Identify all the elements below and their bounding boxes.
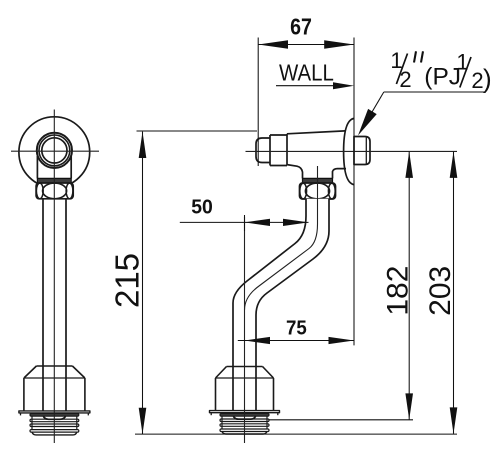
- side view: thread bottom: [222, 432, 267, 435]
- front view: thread crest 1: [30, 414, 79, 417]
- side view: spout horizontal centerline: [246, 150, 458, 152]
- front view: thread root right edge: [76, 416, 78, 430]
- front view: boss ring outer circle: [37, 133, 72, 168]
- dim 182: top arrow: [405, 152, 413, 178]
- side view: wall flange: [344, 118, 354, 184]
- svg-text:215: 215: [108, 253, 145, 308]
- dim 203: top arrow: [450, 152, 458, 178]
- front view: bore inner circle: [42, 138, 67, 163]
- dim 67: right arrow: [324, 40, 354, 48]
- side view: base cylinder left: [215, 378, 217, 411]
- side view: base shoulder top: [227, 366, 263, 368]
- side view: thread crest 2: [220, 419, 269, 422]
- side view: body bottom left edge with fillet: [287, 165, 303, 179]
- front view: nut left facet: [36, 183, 43, 199]
- front view: thread crest 2: [30, 419, 79, 422]
- front view: base shoulder line: [24, 377, 85, 379]
- WALL arrowhead: [333, 82, 354, 89]
- side view: S-pipe left edge: [233, 199, 306, 367]
- front view: washer dark band: [37, 178, 71, 183]
- front view: base flange: [19, 411, 90, 413]
- side view: lower pipe axis line: [244, 217, 246, 443]
- fraction slash 1: [396, 54, 407, 85]
- dim 67: wall line (right extension): [353, 38, 355, 346]
- front view: thread root left edge: [31, 416, 33, 430]
- front view: thread bottom: [32, 432, 77, 435]
- leader underline for thread label: [384, 91, 486, 93]
- dim 203: dimension line: [453, 152, 455, 434]
- front view: horizontal centerline: [11, 150, 99, 152]
- side view: wall nipple: [354, 137, 370, 165]
- svg-text:182: 182: [381, 266, 414, 316]
- front view: thread crest 3: [30, 424, 79, 427]
- front view: flange left tick: [20, 413, 22, 416]
- front view: base shoulder top: [36, 365, 72, 367]
- side view: thread root right edge: [266, 416, 268, 429]
- dim 50: left arrow: [245, 219, 271, 226]
- side view: step top edge: [270, 134, 287, 136]
- side view: S-pipe fill: [233, 199, 329, 367]
- front view: nut center facet ellipse: [43, 183, 67, 199]
- svg-text:2: 2: [471, 68, 483, 93]
- front view: nut right facet: [66, 183, 73, 199]
- dim 215: bottom arrow: [139, 408, 147, 434]
- dim 67: left arrow: [258, 40, 288, 48]
- dim 75: dimension line: [238, 340, 354, 342]
- front view: straight supply pipe: [43, 199, 66, 419]
- side view: base left slope: [216, 367, 227, 379]
- svg-text:2: 2: [399, 67, 411, 92]
- side view: step bottom edge: [270, 165, 287, 167]
- svg-text:203: 203: [424, 266, 457, 316]
- dim 75: right arrow: [329, 337, 355, 344]
- dim 50: right arrow: [283, 219, 309, 226]
- side view: nut left facet: [300, 183, 307, 199]
- front view: flange right tick: [87, 413, 89, 416]
- svg-text:75: 75: [286, 317, 307, 340]
- side view: thread root left edge: [221, 416, 223, 429]
- front view: base right slope: [72, 366, 85, 378]
- side view: flange left tick: [210, 413, 212, 416]
- svg-text:WALL: WALL: [279, 59, 334, 85]
- leader arrowhead: [358, 109, 377, 136]
- side view: base cylinder right: [273, 378, 275, 411]
- side view: branch and pipe centerline: [245, 166, 318, 310]
- side view: valve body fill: [256, 131, 346, 179]
- front view: boss ring middle circle: [39, 135, 70, 166]
- dim 75: left arrow: [245, 337, 271, 344]
- front view: neck right edge: [70, 156, 72, 178]
- side view: washer dark band: [303, 178, 333, 183]
- front view: base left slope: [24, 366, 37, 378]
- dim 182: dimension line: [408, 152, 410, 420]
- side view: nut center facet ellipse: [305, 183, 329, 199]
- side view: nipple chamfer line: [365, 137, 367, 164]
- dim 67: dimension line: [258, 44, 354, 46]
- side view: base right slope: [263, 367, 274, 379]
- side view: flange right tick: [277, 413, 279, 416]
- side view: thread crest 1: [220, 414, 269, 417]
- dim 67: left extension line: [257, 38, 259, 167]
- side view: pipe into base: [233, 367, 256, 420]
- side view: body bottom right edge with fillet: [333, 169, 347, 179]
- front view: base cylinder right: [84, 378, 86, 411]
- side view: body top edge: [287, 131, 345, 134]
- WALL arrow line: [276, 85, 348, 87]
- svg-text:50: 50: [191, 196, 213, 219]
- side view: base flange: [210, 411, 280, 413]
- side view: base shoulder line: [216, 377, 274, 379]
- svg-text:): ): [483, 64, 492, 94]
- front view: hex nut body: [36, 183, 73, 199]
- dim 203: bottom arrow: [450, 407, 458, 433]
- inch double prime: [414, 51, 423, 62]
- leader diagonal line: [362, 92, 384, 129]
- front view: vertical centerline: [53, 110, 55, 444]
- dim 182: bottom extension line: [269, 419, 413, 421]
- side view: S-pipe right edge: [256, 199, 329, 367]
- side view: step/body boundary: [286, 134, 288, 166]
- side view: cap/step boundary: [269, 135, 271, 166]
- front view: base cylinder left: [23, 378, 25, 411]
- svg-text:67: 67: [290, 13, 312, 39]
- dim 215: top extension line: [137, 130, 258, 132]
- bottom shared extension line: [135, 433, 457, 435]
- front view: outer escutcheon circle: [19, 117, 90, 188]
- side view: thread crest 4: [220, 429, 269, 432]
- fraction slash 2: [460, 57, 471, 88]
- dim 215: dimension line: [142, 132, 144, 435]
- dim 182: bottom arrow: [405, 393, 413, 419]
- dim 50: dimension line: [180, 221, 309, 223]
- side view: nut right facet: [328, 183, 335, 199]
- side view: thread crest 3: [220, 424, 269, 427]
- dim 215: top arrow: [139, 132, 147, 158]
- side view: hex nut body: [300, 183, 336, 199]
- dim 50: axis tick: [244, 215, 246, 231]
- side view: spout cap outline: [256, 138, 270, 163]
- front view: thread crest 4: [30, 430, 79, 433]
- front view: neck left edge: [36, 156, 38, 178]
